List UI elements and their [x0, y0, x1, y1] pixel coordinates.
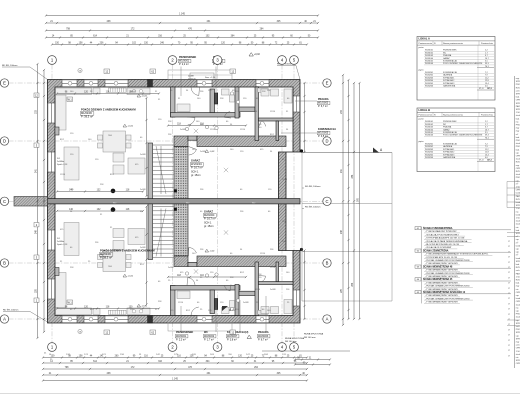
svg-text:GARAŻ: GARAŻ [191, 160, 200, 163]
svg-text:bud.: bud. [516, 230, 520, 232]
leader pralnia right [295, 100, 317, 102]
window right wall top [293, 96, 300, 112]
dining table (bottom) [103, 251, 126, 272]
porch dashed outline top [168, 70, 232, 80]
svg-text:17: 17 [508, 257, 510, 259]
svg-text:P: 2,3 m²: P: 2,3 m² [176, 338, 186, 341]
shaft (bottom) [215, 299, 218, 310]
coffee table (bottom) [128, 229, 145, 245]
svg-text:PROJ.: PROJ. [516, 125, 520, 127]
radiators [109, 88, 127, 92]
svg-text:2x088: 2x088 [140, 189, 146, 191]
svg-text:W2/00/03: W2/00/03 [258, 335, 269, 338]
wc east wall (bottom) [235, 285, 239, 316]
svg-text:upr.: upr. [516, 335, 520, 337]
svg-text:17: 17 [508, 251, 510, 253]
svg-text:arch.: arch. [516, 90, 520, 92]
svg-text:-0,02: -0,02 [209, 251, 215, 253]
pralnia south wall (bottom) [259, 282, 294, 285]
svg-text:inż.: inż. [516, 307, 520, 309]
svg-text:mgr: mgr [516, 78, 520, 80]
przedsionek south wall [171, 113, 241, 118]
przedsionek east wall (bottom) [210, 290, 215, 314]
svg-text:2x088: 2x088 [140, 154, 146, 156]
svg-text:ŚCIANA WEWNĘTRZNA 48: ŚCIANA WEWNĘTRZNA 48 [423, 265, 453, 268]
przedsionek east wall [210, 89, 215, 113]
svg-text:m²: m² [516, 182, 519, 185]
svg-text:piętro: piętro [419, 140, 425, 143]
svg-text:2x088: 2x088 [130, 91, 136, 93]
svg-text:W2/00/07: W2/00/07 [227, 335, 238, 338]
grid axis lines vertical 1-5 [52, 65, 294, 343]
svg-text:12/14: 12/14 [270, 267, 276, 269]
wardrobe hall [177, 104, 190, 112]
porch steps top [190, 73, 214, 80]
komunikacja east wall [276, 121, 279, 141]
svg-text:KOMUNIKACJA: KOMUNIKACJA [318, 128, 336, 131]
window note bottom-left [57, 238, 68, 246]
interior dim line living bottom [57, 308, 159, 310]
interior vdim living top [146, 98, 148, 196]
svg-text:WC: WC [204, 331, 208, 334]
svg-text:2x088: 2x088 [188, 76, 195, 78]
svg-text:Szer +2,10: Szer +2,10 [205, 76, 216, 79]
windows bottom wall [62, 316, 77, 324]
svg-text:inż.: inż. [516, 357, 520, 359]
svg-text:PRALNIA: PRALNIA [258, 331, 269, 334]
svg-text:M2/02/04: M2/02/04 [204, 214, 215, 217]
interior wall stairs-living (bottom) [148, 204, 153, 260]
svg-text:W2/00/02: W2/00/02 [204, 335, 215, 338]
svg-text:bud.: bud. [516, 149, 520, 151]
svg-text:RG ŚR, 100mm: RG ŚR, 100mm [305, 206, 321, 209]
svg-text:m²: m² [516, 241, 519, 244]
svg-text:SCH 1: SCH 1 [191, 170, 199, 173]
svg-text:PRALNIA: PRALNIA [318, 98, 329, 101]
garage north wall [174, 136, 188, 147]
svg-text:2x088: 2x088 [270, 289, 276, 291]
svg-text:C: C [325, 199, 328, 204]
pilaster top wall [148, 80, 153, 88]
section flag A bottom [222, 306, 228, 311]
elevation marks [123, 124, 127, 127]
legend item 63 [415, 265, 421, 268]
party wall left extension [14, 197, 48, 207]
wc-pralnia wall (bottom) [239, 291, 255, 295]
level mark -0,02 bottom [247, 335, 251, 338]
svg-text:17: 17 [508, 303, 510, 305]
svg-text:kond.: kond. [516, 245, 520, 247]
svg-text:17: 17 [508, 350, 510, 352]
svg-text:bud.: bud. [516, 283, 520, 285]
pralnia south wall [259, 118, 294, 121]
armchairs (bottom) [113, 241, 124, 250]
wardrobe hall (bottom) [177, 291, 190, 299]
pilaster bottom wall [148, 316, 153, 324]
svg-text:Powierzchnia: Powierzchnia [481, 114, 494, 116]
svg-text:OPR.: OPR. [516, 363, 520, 365]
svg-text:mgr: mgr [516, 165, 520, 167]
svg-text:PARTER: PARTER [516, 272, 520, 275]
svg-text:PROJ.: PROJ. [516, 329, 520, 331]
svg-text:skala: skala [516, 317, 520, 319]
svg-text:SPR.: SPR. [516, 81, 520, 83]
svg-text:2x088m: 2x088m [57, 241, 64, 243]
svg-text:SPR.: SPR. [516, 94, 520, 96]
stairs (bottom) [153, 207, 174, 258]
svg-text:ŚCIANA ZEWNĘTRZNA: ŚCIANA ZEWNĘTRZNA [423, 249, 449, 252]
svg-text:P: 1,7 m²: P: 1,7 m² [204, 338, 214, 341]
svg-text:17: 17 [508, 288, 510, 290]
svg-text:kond.: kond. [516, 202, 520, 204]
svg-text:+0,00: +0,00 [127, 126, 133, 128]
svg-text:2x088: 2x088 [180, 129, 186, 131]
svg-text:1:50: 1:50 [516, 218, 520, 220]
svg-text:OPR.: OPR. [516, 301, 520, 303]
svg-text:120/120: 120/120 [188, 79, 196, 81]
door entrance bottom [191, 307, 200, 316]
pralnia west wall [255, 87, 259, 141]
svg-text:+0,00: +0,00 [127, 276, 133, 278]
svg-text:piętro: piętro [419, 68, 425, 71]
pralnia fixtures (bottom) [261, 307, 269, 314]
door wc bottom [187, 278, 195, 286]
door tag circles [185, 127, 188, 130]
svg-text:SCH 1: SCH 1 [204, 221, 212, 224]
mini dims bottom right corner [295, 359, 330, 361]
svg-text:17: 17 [508, 340, 510, 342]
svg-text:W1/00/01: W1/00/01 [179, 60, 190, 63]
svg-text:skala: skala [516, 354, 520, 356]
kitchen counter (bottom) [56, 223, 293, 315]
svg-text:RURA SPUSTOWA: RURA SPUSTOWA [304, 333, 324, 336]
svg-text:1:50: 1:50 [516, 112, 520, 114]
door entrance top [191, 87, 200, 96]
svg-text:gr. 15cm: gr. 15cm [204, 225, 214, 228]
svg-text:1 345: 1 345 [172, 379, 178, 381]
legend item 61 [415, 227, 421, 230]
svg-text:E: E [326, 81, 329, 86]
svg-text:OPR.: OPR. [516, 348, 520, 350]
right wall mini vdim top [304, 83, 306, 152]
svg-text:12/14: 12/14 [282, 179, 288, 181]
stairs [153, 145, 174, 196]
svg-text:1 345: 1 345 [179, 14, 185, 16]
radiators (bottom) [109, 310, 127, 314]
svg-text:kond.: kond. [516, 258, 520, 260]
left dimension chain [37, 64, 39, 338]
top dimension chain [46, 15, 318, 17]
svg-text:upr.: upr. [516, 152, 520, 154]
svg-text:SPR.: SPR. [516, 233, 520, 235]
leader komunikacja right [281, 132, 317, 134]
door tag circles (bottom) [185, 272, 188, 275]
svg-text:Powierzchnia: Powierzchnia [481, 43, 494, 45]
svg-text:upr.: upr. [516, 239, 520, 241]
svg-text:mgr: mgr [516, 342, 520, 344]
svg-text:12/14: 12/14 [178, 302, 184, 304]
svg-text:ŚR 100 mm: ŚR 100 mm [304, 336, 316, 339]
living-przedsionek wall (bottom) [171, 286, 176, 316]
interior dim line living bottom upper [57, 210, 143, 212]
svg-text:W1/03/03: W1/03/03 [318, 102, 329, 105]
window tag circles [68, 81, 72, 85]
svg-text:D: D [325, 139, 328, 144]
svg-text:OPR.: OPR. [516, 292, 520, 294]
svg-text:RD ŚR, 100mm: RD ŚR, 100mm [3, 309, 18, 312]
svg-text:RZUT: RZUT [516, 267, 520, 269]
pilaster left wall top [55, 127, 59, 135]
svg-text:PROJ.: PROJ. [516, 314, 520, 316]
kitchen counter [56, 88, 293, 180]
far right sheet strip [514, 76, 516, 368]
svg-text:arch.: arch. [516, 270, 520, 272]
svg-text:PRZEDSIONEK: PRZEDSIONEK [176, 331, 194, 334]
svg-text:RURA SPUSTOWA: RURA SPUSTOWA [285, 337, 305, 340]
svg-text:kond.: kond. [516, 214, 520, 216]
right dimension chain [342, 75, 344, 325]
svg-text:P: 16,7 m²: P: 16,7 m² [191, 167, 203, 170]
svg-text:+0,02: +0,02 [254, 54, 261, 56]
svg-text:12/14: 12/14 [270, 111, 276, 113]
svg-text:P: 39,3 m²: P: 39,3 m² [81, 115, 93, 119]
svg-text:1:50: 1:50 [516, 276, 520, 278]
svg-text:17: 17 [508, 293, 510, 295]
area table LOKAL A [417, 37, 495, 101]
svg-text:17: 17 [508, 283, 510, 285]
svg-text:mgr: mgr [516, 131, 520, 133]
svg-text:PROJ.: PROJ. [516, 140, 520, 142]
svg-text:PARTER: PARTER [516, 195, 520, 198]
svg-text:Spód +2,13: Spód +2,13 [57, 244, 68, 246]
svg-text:P: 6,7 m²: P: 6,7 m² [318, 105, 328, 108]
label leader lines bottom [180, 306, 182, 332]
svg-text:Spód +2,13: Spód +2,13 [57, 164, 68, 166]
living-przedsionek wall [171, 87, 176, 117]
interior dim line living top lower [57, 191, 143, 193]
svg-text:skala: skala [516, 174, 520, 176]
svg-text:SPR.: SPR. [516, 360, 520, 362]
wc east wall [235, 87, 239, 118]
svg-text:OPR.: OPR. [516, 190, 520, 192]
section line A right [302, 152, 392, 154]
svg-text:PROJ.: PROJ. [516, 84, 520, 86]
party wall W.2 [48, 199, 301, 204]
svg-text:PROJ.: PROJ. [516, 177, 520, 179]
svg-text:B: B [326, 261, 329, 266]
interior dim line living top [57, 93, 159, 95]
wc fixtures (bottom) [222, 308, 230, 314]
far right strip divider lines [507, 181, 520, 183]
wc fixtures [222, 89, 230, 95]
svg-text:bud.: bud. [516, 97, 520, 99]
svg-text:+0,00: +0,00 [141, 306, 147, 308]
svg-text:P: 6,7 m²: P: 6,7 m² [258, 338, 268, 341]
svg-text:RZUT: RZUT [516, 280, 520, 282]
legend item 62 [415, 249, 421, 252]
dining table [103, 131, 126, 152]
grid axis lines horizontal A-E [9, 83, 323, 319]
svg-text:gr. 15cm: gr. 15cm [191, 174, 201, 177]
svg-text:W.2: W.2 [252, 202, 255, 204]
svg-text:inż.: inż. [516, 121, 520, 123]
svg-text:17: 17 [508, 335, 510, 337]
svg-text:mgr: mgr [516, 128, 520, 130]
svg-text:SPR.: SPR. [516, 103, 520, 105]
interior dim line hall top [168, 125, 246, 127]
svg-text:inż.: inż. [516, 227, 520, 229]
svg-text:kond.: kond. [516, 193, 520, 195]
svg-text:+0,00: +0,00 [141, 96, 147, 98]
svg-text:inż.: inż. [516, 289, 520, 291]
downpipe dots right recess [300, 149, 303, 152]
svg-text:OPR.: OPR. [516, 100, 520, 102]
shaft [215, 93, 218, 104]
svg-text:12/14: 12/14 [240, 129, 246, 131]
door pralnia bottom [259, 276, 266, 282]
level mark +0,02 [249, 53, 253, 56]
svg-text:12/14: 12/14 [210, 129, 216, 131]
outer wall outline [48, 80, 301, 324]
svg-text:SPR.: SPR. [516, 109, 520, 111]
svg-text:m²: m² [516, 254, 519, 257]
svg-text:P: 2,2 m²: P: 2,2 m² [179, 63, 189, 66]
door wc2 bottom [225, 285, 232, 291]
svg-text:upr.: upr. [516, 252, 520, 254]
svg-text:m²: m² [516, 133, 519, 136]
terrace rectangle right [302, 153, 392, 302]
label leader lines top [180, 67, 182, 97]
svg-text:17: 17 [508, 329, 510, 331]
coffee table [128, 158, 145, 174]
svg-text:17: 17 [508, 345, 510, 347]
pralnia west wall (bottom) [255, 262, 259, 316]
svg-text:RD ŚR, 100mm: RD ŚR, 100mm [2, 64, 17, 67]
svg-text:skala: skala [516, 159, 520, 161]
far right mini numbers [508, 241, 510, 357]
svg-text:Nazwa pomieszczenia: Nazwa pomieszczenia [443, 43, 464, 45]
wc-pralnia wall [239, 107, 255, 111]
svg-text:skala: skala [516, 115, 520, 117]
left wall type markers [34, 93, 39, 97]
right wall mini vdim bottom [304, 251, 306, 320]
svg-text:W2/00/01: W2/00/01 [176, 335, 187, 338]
in-plan markers [104, 69, 110, 73]
circle a marker bottom [78, 329, 82, 333]
svg-text:17: 17 [508, 309, 510, 311]
svg-text:17: 17 [508, 314, 510, 316]
circle a marker top [78, 68, 82, 72]
svg-text:LOKAL A: LOKAL A [419, 37, 431, 41]
svg-text:kond.: kond. [516, 298, 520, 300]
garage west wall dotted (bottom) [174, 204, 188, 256]
svg-text:arch.: arch. [516, 345, 520, 347]
interior vdim living bottom [146, 207, 148, 305]
svg-text:1:50: 1:50 [516, 351, 520, 353]
interior wall stairs-living [148, 143, 153, 199]
svg-text:P: 16,7 m²: P: 16,7 m² [204, 218, 216, 221]
svg-text:bud.: bud. [516, 264, 520, 266]
svg-text:12/14: 12/14 [60, 174, 66, 176]
door garage bottom [189, 248, 197, 257]
svg-text:skala: skala [516, 304, 520, 306]
svg-text:SPR.: SPR. [516, 323, 520, 325]
armchairs [113, 153, 124, 162]
svg-text:SPR.: SPR. [516, 332, 520, 334]
svg-text:mgr: mgr [516, 286, 520, 288]
svg-text:RG ŚR, 100mm: RG ŚR, 100mm [305, 185, 321, 188]
grid bubbles letters left [0, 79, 8, 87]
svg-text:ŚCIANA WEWNĘTRZNA DZIAŁOWA 12: ŚCIANA WEWNĘTRZNA DZIAŁOWA 12 [423, 291, 466, 294]
svg-text:17: 17 [508, 262, 510, 264]
door garage top [189, 147, 197, 156]
svg-text:W.2: W.2 [113, 202, 116, 204]
sofa (bottom) [64, 223, 79, 256]
interior dim line hall bottom [168, 276, 246, 278]
grid bubbles numbers bottom [48, 343, 57, 352]
sofa [64, 147, 79, 180]
svg-text:parter: parter [419, 118, 425, 121]
komunikacja east wall (bottom) [276, 262, 279, 282]
garage west wall dotted [174, 147, 188, 199]
svg-text:E: E [3, 81, 6, 86]
svg-text:17: 17 [508, 298, 510, 300]
interior dim texts [60, 90, 290, 312]
svg-text:D: D [3, 139, 6, 144]
svg-text:LOKAL B: LOKAL B [419, 108, 431, 112]
svg-text:17: 17 [508, 241, 510, 243]
svg-text:2x088m: 2x088m [57, 161, 64, 163]
svg-text:-0,02: -0,02 [209, 151, 215, 153]
svg-text:2x088: 2x088 [243, 302, 249, 304]
legend item 64 [415, 278, 421, 281]
svg-text:parter: parter [419, 46, 425, 49]
svg-text:Pomieszczenie: Pomieszczenie [419, 43, 433, 45]
windows left wall [48, 103, 56, 123]
svg-text:SPR.: SPR. [516, 205, 520, 207]
svg-text:17: 17 [508, 272, 510, 274]
svg-text:OPR.: OPR. [516, 168, 520, 170]
svg-text:RZUT: RZUT [516, 87, 520, 89]
pralnia fixtures [261, 89, 269, 96]
svg-text:17: 17 [508, 355, 510, 357]
svg-text:RZUT: RZUT [516, 171, 520, 173]
svg-text:17: 17 [508, 324, 510, 326]
area table LOKAL B [417, 108, 495, 172]
svg-text:W1/03/05: W1/03/05 [318, 132, 329, 135]
svg-text:1:50: 1:50 [516, 208, 520, 210]
svg-text:P: 3,8 m²: P: 3,8 m² [227, 338, 237, 341]
svg-text:upr.: upr. [516, 311, 520, 313]
svg-text:C: C [3, 199, 6, 204]
svg-text:SPR.: SPR. [516, 338, 520, 340]
svg-text:ŚCIANA WEWNĘTRZNA 25: ŚCIANA WEWNĘTRZNA 25 [423, 278, 453, 281]
svg-text:A: A [326, 317, 329, 322]
svg-text:W.1: W.1 [68, 98, 73, 101]
svg-text:Pomieszczenie: Pomieszczenie [419, 114, 433, 116]
svg-text:skala: skala [516, 224, 520, 226]
svg-text:PROJ.: PROJ. [516, 146, 520, 148]
svg-text:P: 38,3 m²: P: 38,3 m² [100, 256, 112, 260]
windows top wall [62, 80, 77, 88]
svg-text:upr.: upr. [516, 295, 520, 297]
porch outline bottom [168, 323, 232, 332]
svg-text:B: B [3, 261, 6, 266]
svg-text:SPR.: SPR. [516, 261, 520, 263]
drain cross garage top [224, 168, 228, 172]
svg-text:arch.: arch. [516, 326, 520, 328]
svg-text:bud.: bud. [516, 137, 520, 139]
